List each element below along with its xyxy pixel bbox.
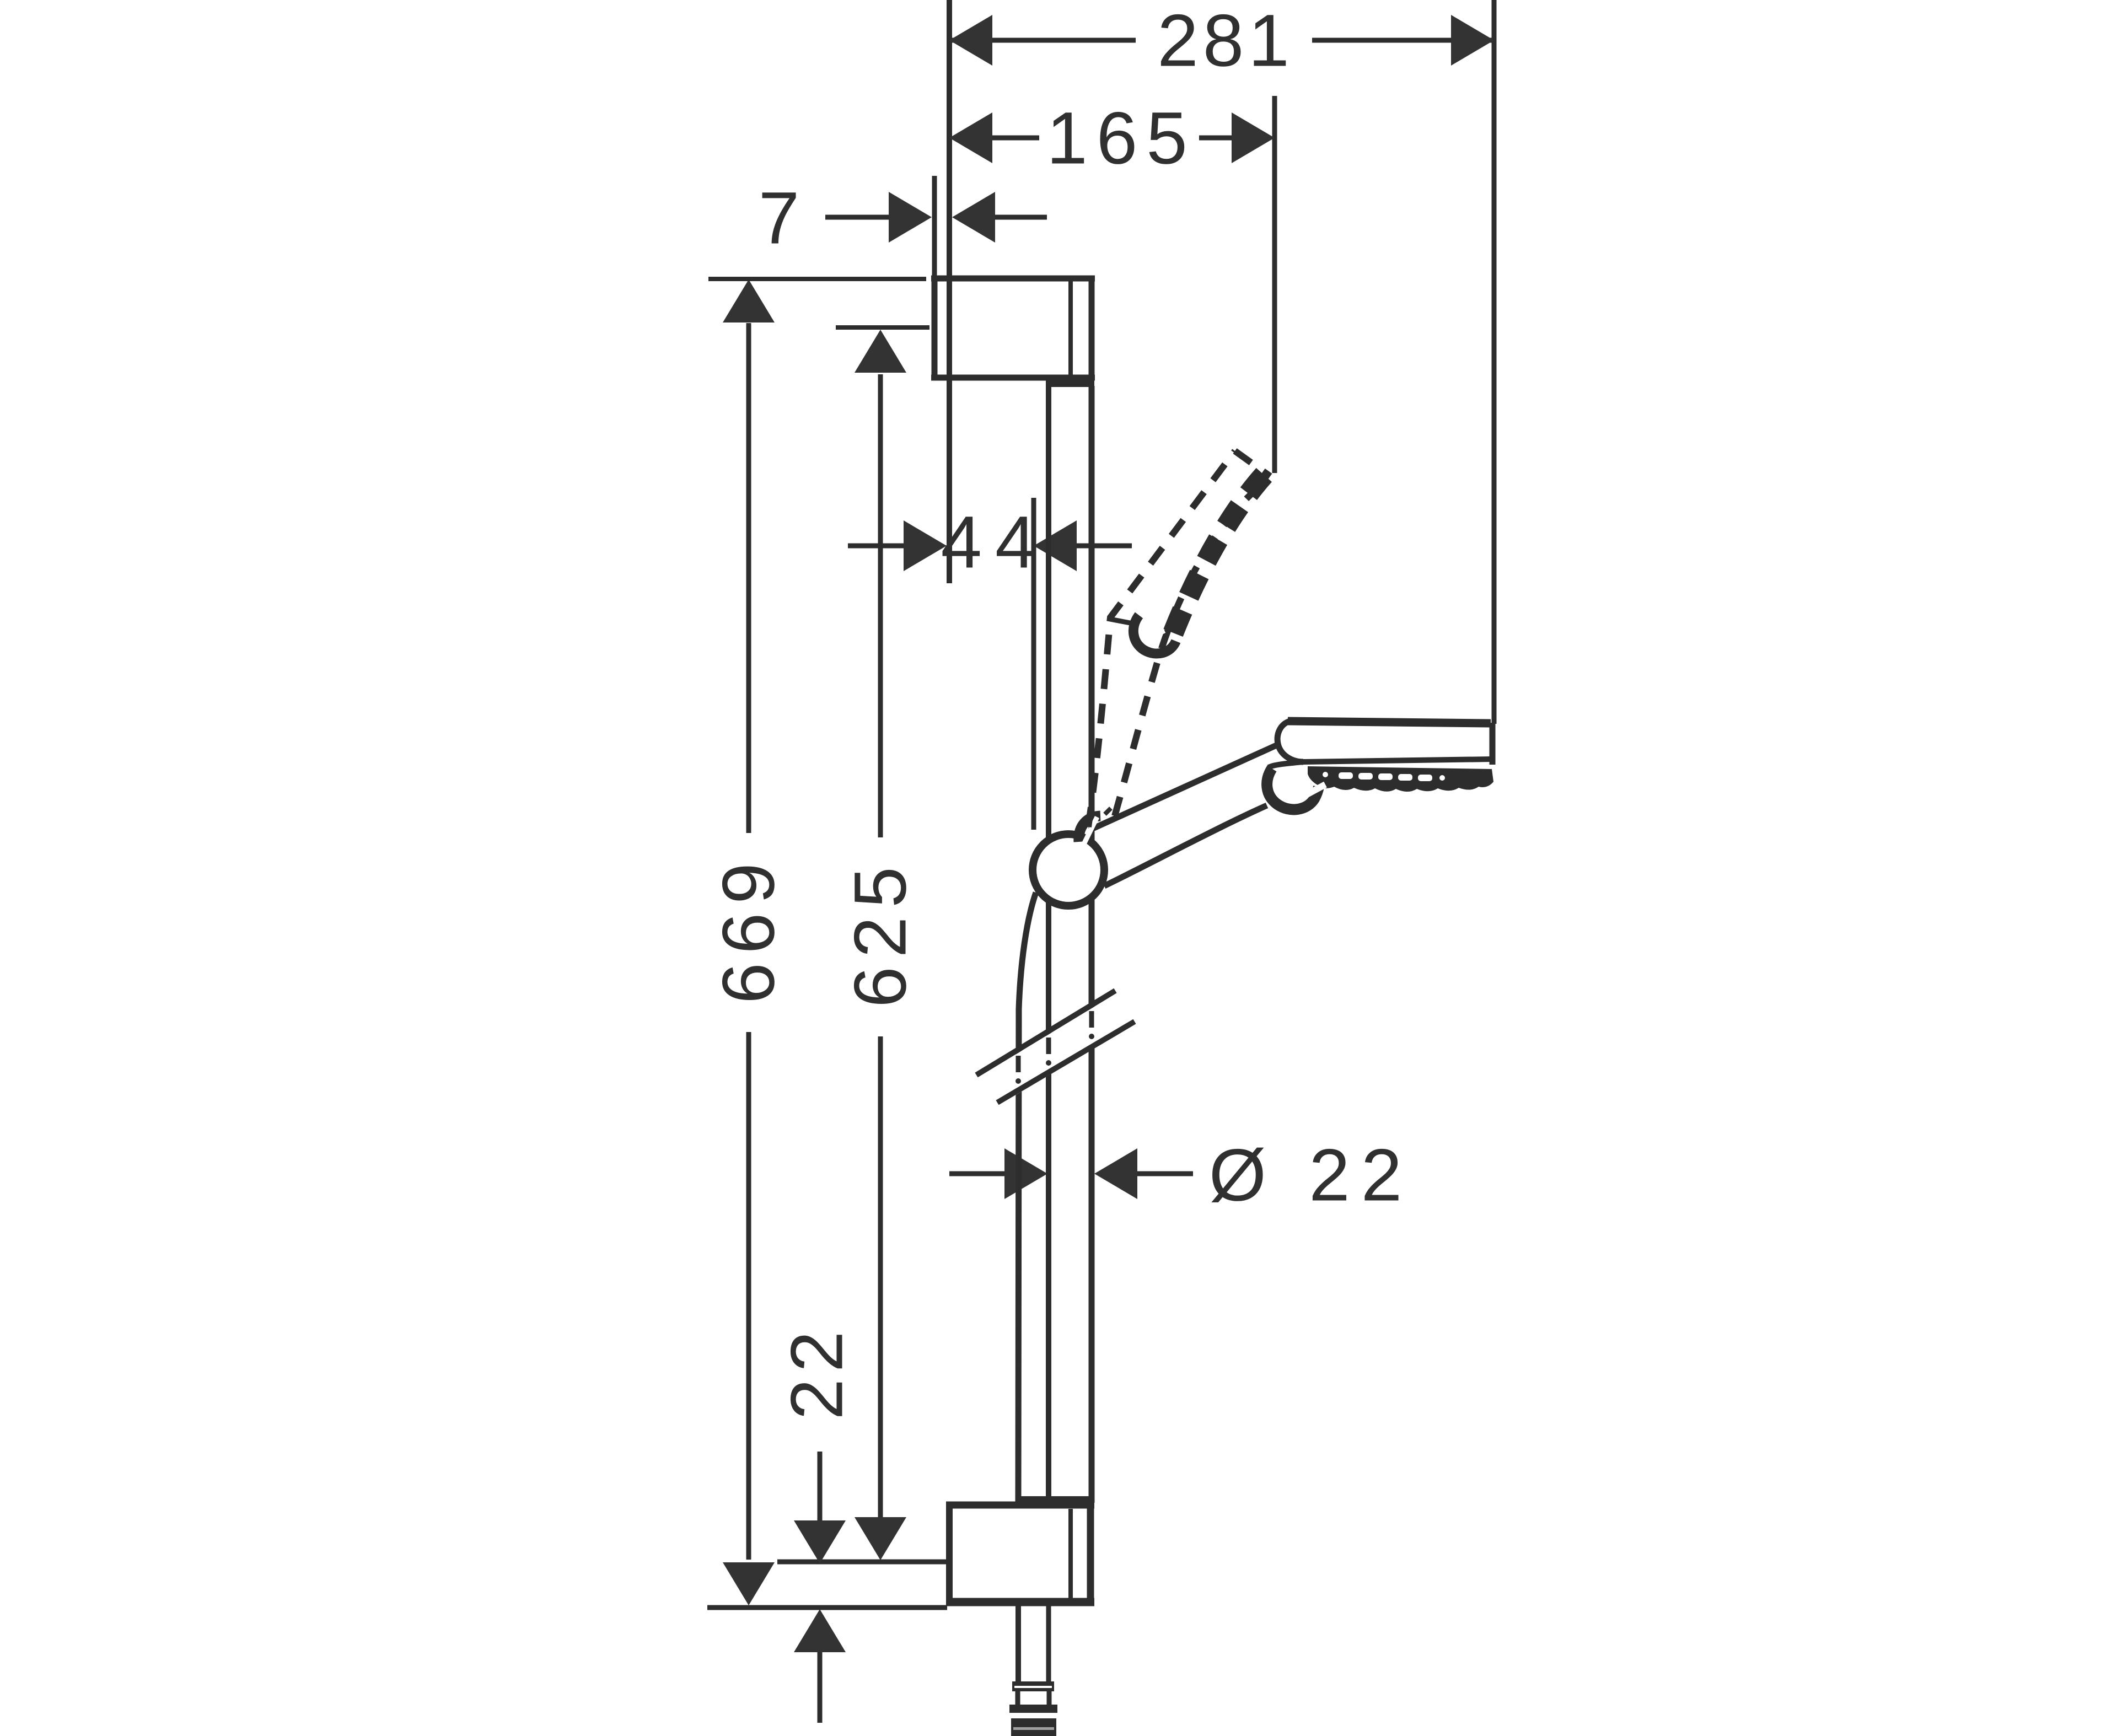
handle bottom edge bbox=[1104, 805, 1267, 886]
shower hose upper run bbox=[1018, 893, 1036, 1503]
svg-text:44: 44 bbox=[941, 502, 1049, 584]
dashed hook bbox=[1133, 615, 1176, 654]
svg-text:165: 165 bbox=[1046, 98, 1196, 180]
dimension 22 arrowheads bbox=[794, 1520, 846, 1563]
svg-text:281: 281 bbox=[1157, 0, 1294, 82]
bottom bracket bottom edge bbox=[946, 1598, 1094, 1606]
bottom bracket inner divider bbox=[1068, 1509, 1073, 1599]
wall bracket (top) bbox=[931, 276, 1095, 387]
dimension 625 line bbox=[878, 374, 883, 837]
bottom bracket right edge bbox=[1087, 1502, 1094, 1606]
shower hose lower run left edge bbox=[1015, 1606, 1021, 1683]
hook joint line bbox=[1269, 762, 1303, 767]
dimension 625 top tick bbox=[836, 325, 929, 330]
rail left edge bbox=[1046, 386, 1051, 1503]
dimension 7 line bbox=[825, 215, 889, 220]
extension line right of dim 281 bbox=[1492, 0, 1497, 724]
extension line right of dim 165 bbox=[1272, 96, 1277, 473]
dimension dia 22 line bbox=[949, 1171, 1006, 1176]
rail break whiteout bbox=[976, 994, 1135, 1106]
wall extension line (left reference) bbox=[947, 0, 952, 583]
dimension 669 bottom tick bbox=[707, 1605, 947, 1610]
dimension 165 arrowheads bbox=[949, 112, 992, 163]
dimension 625 arrowheads bbox=[855, 330, 906, 373]
holder hook bbox=[1267, 768, 1319, 809]
rail break slash 2 bbox=[997, 1022, 1135, 1103]
dimension 22 line lower tail bbox=[818, 1652, 823, 1723]
dimension dia 22 arrowheads bbox=[1004, 1148, 1047, 1199]
hose connector nut bbox=[1012, 1681, 1054, 1691]
hose coupler knurled body bbox=[1011, 1718, 1056, 1736]
rail break slash 1 bbox=[976, 991, 1115, 1075]
hook inner slit bbox=[1297, 784, 1325, 800]
extension line right of dim 44 bbox=[1031, 498, 1036, 830]
handle fill bbox=[1094, 745, 1296, 886]
bottom bracket left edge bbox=[946, 1502, 953, 1606]
bottom bracket shadow strip bbox=[1016, 1496, 1094, 1502]
dashed head top cap bbox=[1235, 451, 1270, 476]
handshower (solid, in holder) bbox=[1093, 721, 1493, 886]
hose coupler top band bbox=[1009, 1705, 1057, 1713]
spray nozzle slots bbox=[1339, 772, 1353, 779]
dimension 44 line bbox=[848, 544, 904, 549]
rail break dash-dot remnants bbox=[1046, 1038, 1051, 1054]
svg-text:669: 669 bbox=[708, 854, 790, 1004]
dimension 7 arrowheads bbox=[889, 192, 932, 243]
top bracket top edge bbox=[931, 276, 1095, 282]
dimension 281 arrowheads bbox=[949, 15, 992, 66]
dimension 669 line bbox=[746, 323, 751, 833]
dimension 669 top tick bbox=[708, 277, 926, 281]
head right cap bbox=[1490, 723, 1496, 765]
extension line bracket face for dim 7 bbox=[932, 176, 937, 276]
head mid line bbox=[1303, 759, 1492, 762]
svg-text:Ø 22: Ø 22 bbox=[1209, 1135, 1414, 1217]
rail right edge bbox=[1089, 386, 1095, 1503]
top bracket right edge bbox=[1089, 276, 1095, 380]
handle top edge bbox=[1093, 745, 1276, 829]
shower hose lower run right edge bbox=[1046, 1606, 1051, 1683]
dimension 625 bottom tick bbox=[777, 1560, 947, 1565]
wall bracket (bottom) bbox=[946, 1499, 1094, 1606]
hose connector neck left bbox=[1015, 1691, 1020, 1706]
top bracket bottom edge bbox=[931, 375, 1095, 381]
dashed handle right edge / head face bbox=[1115, 477, 1270, 816]
bottom bracket top edge bbox=[946, 1502, 1094, 1509]
dimension 281 line bbox=[949, 38, 1136, 43]
dashed handle left edge bbox=[1088, 451, 1235, 827]
slider holder ball bbox=[1033, 834, 1104, 906]
svg-text:7: 7 bbox=[759, 178, 800, 260]
head left cap bbox=[1277, 721, 1303, 762]
dimension 22 line upper tail bbox=[818, 1452, 823, 1520]
dimension 165 line bbox=[992, 136, 1039, 141]
top bracket rail socket step bbox=[1046, 380, 1094, 387]
handshower (dashed, raised position) bbox=[1088, 451, 1270, 827]
top bracket left edge bbox=[932, 276, 938, 380]
top bracket inner divider bbox=[1068, 281, 1073, 375]
dimension 669 arrowheads bbox=[723, 280, 775, 323]
head top edge bbox=[1288, 721, 1491, 723]
dashed elbow tick bbox=[1107, 619, 1130, 623]
svg-text:22: 22 bbox=[776, 1324, 858, 1420]
dimension 44 arrowheads bbox=[904, 520, 947, 571]
hose connector neck right bbox=[1047, 1691, 1052, 1706]
svg-text:625: 625 bbox=[840, 858, 922, 1008]
slider clip bbox=[1079, 816, 1100, 842]
dashed spray blobs bbox=[1173, 473, 1266, 633]
spray face band bbox=[1308, 766, 1493, 792]
